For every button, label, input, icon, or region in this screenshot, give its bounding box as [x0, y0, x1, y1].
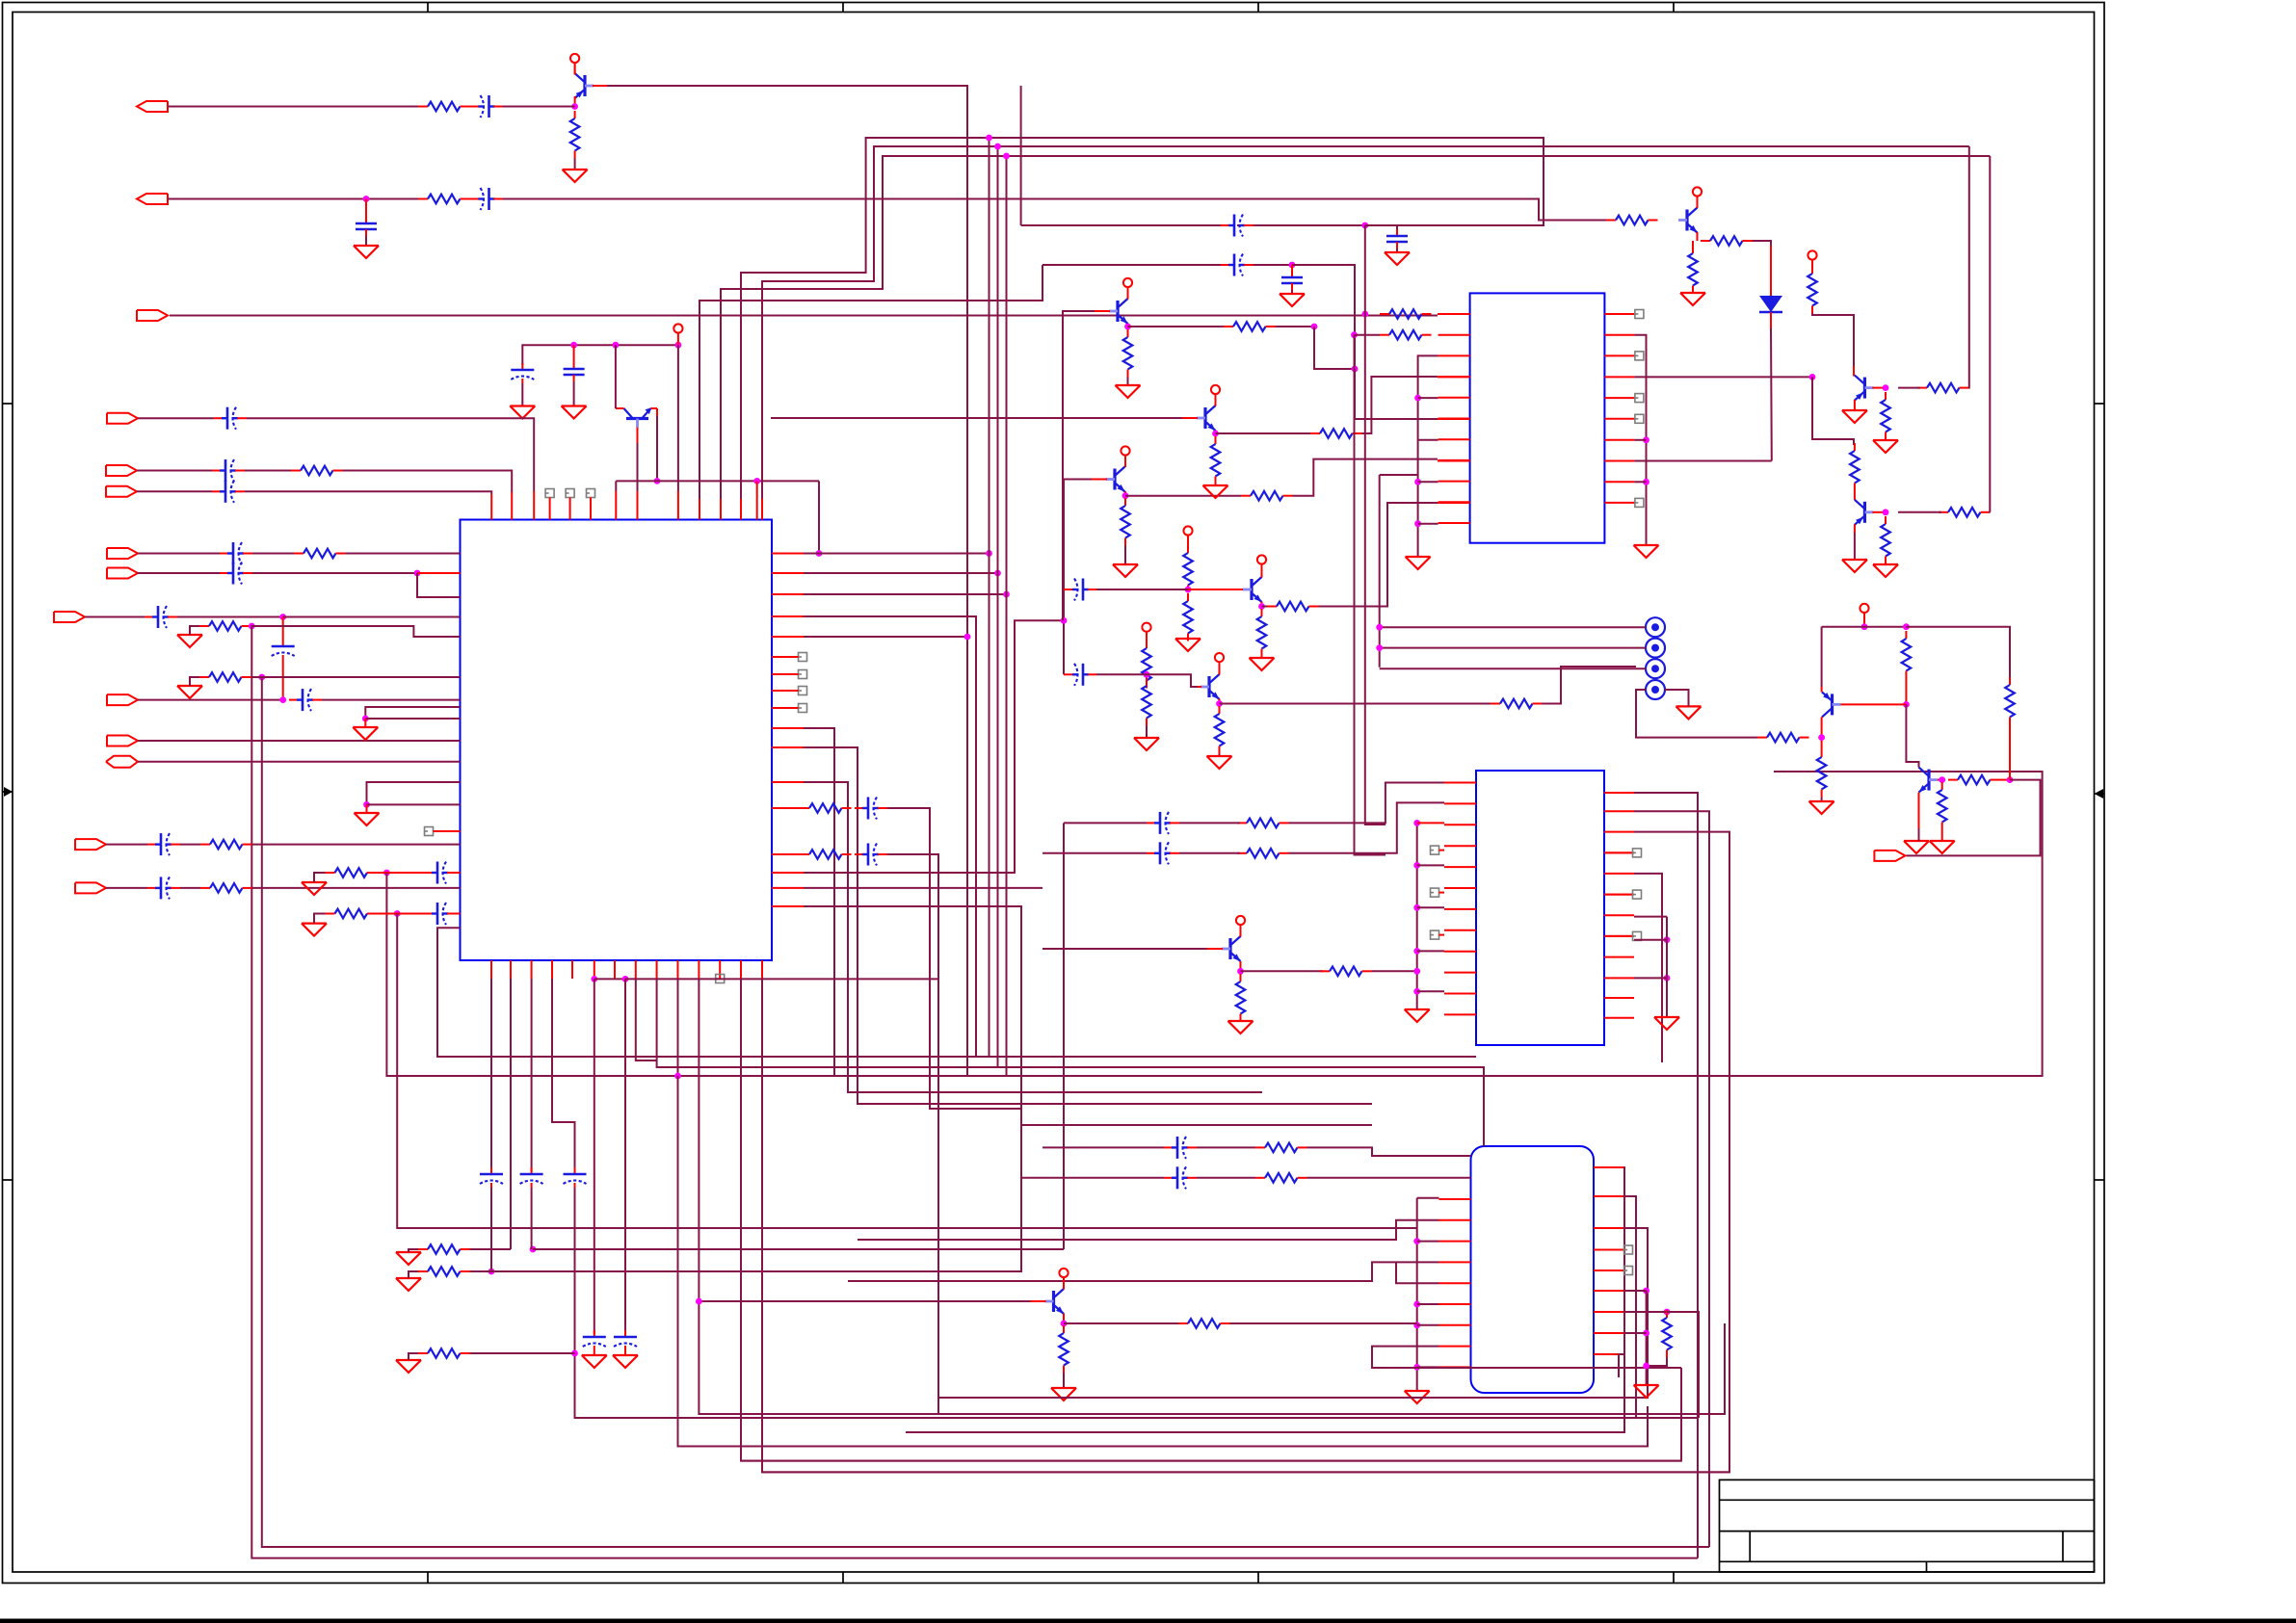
pin stub: [1439, 1241, 1471, 1243]
wire Q2 collector jog: [616, 407, 624, 409]
pin stub: [590, 498, 592, 520]
capacitor C7: [212, 459, 245, 482]
wire Qa emitter row: [1125, 495, 1241, 497]
capacitor C3: [470, 188, 503, 210]
wire: [1313, 327, 1315, 369]
wire: [2000, 779, 2011, 781]
wire: [1418, 355, 1438, 557]
wire: [1289, 783, 1445, 824]
wire row2 to right: [503, 199, 1607, 221]
transistor Q6: [1109, 299, 1128, 324]
border zone tick left: [3, 1179, 13, 1181]
ground GND36: [1405, 1009, 1430, 1022]
wire Qa base stub: [1092, 479, 1107, 481]
wire: [1906, 780, 2040, 856]
junction J21: [591, 976, 597, 982]
wire: [1634, 335, 1646, 545]
wire: [804, 572, 998, 574]
junction J61: [1413, 820, 1420, 826]
power pin PWR8: [1123, 278, 1132, 300]
resistor R48: [1237, 819, 1289, 828]
wire Qb emitter row: [1262, 606, 1268, 608]
wire: [1289, 802, 1445, 852]
pin stub: [1604, 894, 1634, 896]
wire: [1179, 822, 1240, 824]
wire T2 base: [1872, 387, 1886, 389]
transistor Q14: [1045, 1289, 1065, 1314]
junction J14: [362, 716, 369, 722]
wire: [247, 418, 534, 491]
wire: [251, 676, 461, 678]
wire: [938, 1228, 1648, 1414]
border zone tick top: [842, 3, 844, 13]
wire: [906, 1167, 1624, 1432]
wire base: [1063, 311, 1095, 620]
capacitor C34: [1164, 1166, 1197, 1189]
resistor R22: [1267, 602, 1319, 612]
capacitor C29: [1221, 254, 1254, 276]
wire: [1634, 460, 1771, 462]
wire: [1372, 970, 1417, 972]
pin stub: [1604, 956, 1634, 958]
resistor R47: [2005, 677, 2015, 725]
junction J47: [1414, 520, 1421, 527]
junction J77: [1664, 1309, 1671, 1316]
junction J12: [258, 674, 265, 681]
capacitor C18 (pol): [480, 1167, 503, 1188]
power pin PWR11: [1808, 250, 1816, 272]
pin stub: [1438, 376, 1470, 378]
no-connect flag NC21: [1624, 1245, 1633, 1254]
wire drop x401: [386, 772, 2042, 1076]
junction J34: [1258, 603, 1265, 610]
port P9: [54, 612, 85, 622]
pin stub: [571, 960, 573, 979]
wire: [409, 1271, 418, 1278]
pin stub: [1594, 1270, 1623, 1271]
wire T2 emitter: [1854, 400, 1856, 410]
pin stub: [1439, 892, 1445, 894]
resistor R20: [1183, 593, 1193, 641]
power pin PWR7: [1215, 653, 1224, 674]
ground GND10: [302, 924, 327, 936]
wire: [573, 381, 575, 406]
pin stub: [772, 690, 799, 692]
wire: [367, 803, 461, 805]
ground GND6: [177, 686, 202, 698]
wire: [1293, 459, 1438, 496]
wire: [1417, 1197, 1439, 1199]
wire emitter row: [1216, 432, 1311, 434]
pin stub: [1444, 782, 1476, 784]
wire: [657, 979, 1484, 1067]
pin stub: [1594, 1249, 1623, 1251]
wire: [138, 572, 220, 574]
ground GND29: [1873, 440, 1898, 453]
wire Q2 base: [637, 443, 639, 491]
junction J65: [1413, 988, 1420, 995]
transistor Q13: [1222, 936, 1241, 961]
pin stub: [772, 853, 800, 855]
resistor R49: [1237, 849, 1289, 858]
wire bus y1108: [998, 1067, 1485, 1146]
transistor Q10 (PNP): [1855, 500, 1874, 525]
wire: [1319, 503, 1438, 607]
pin stub: [1438, 418, 1470, 420]
capacitor C30: [1281, 271, 1303, 290]
test point TP3: [1646, 659, 1665, 678]
wire Q1 emitter to node: [574, 96, 576, 107]
pin stub: [510, 960, 512, 979]
wire: [503, 106, 575, 108]
resistor R21: [1257, 609, 1267, 657]
capacitor C20 (pol): [564, 1167, 587, 1188]
pin stub: [772, 572, 804, 574]
pin stub: [677, 491, 679, 520]
capacitor C5: [564, 362, 585, 381]
no-connect flag NC10: [1635, 310, 1644, 319]
wire base stub: [1207, 948, 1223, 950]
wire: [1770, 328, 1773, 461]
wire: [1753, 241, 1772, 246]
wire: [252, 553, 294, 555]
port P7: [107, 548, 138, 559]
resistor R33: [1606, 216, 1658, 225]
junction J68: [1664, 936, 1671, 943]
pin stub: [594, 960, 595, 979]
wire: [409, 1249, 418, 1252]
wire: [1634, 939, 1667, 941]
wire: [510, 979, 512, 1249]
wire: [1863, 613, 1865, 627]
pin stub: [1604, 977, 1634, 979]
pin stub: [1444, 951, 1476, 953]
no-connect flag NC22: [1624, 1267, 1633, 1275]
wire: [367, 782, 461, 804]
pin stub: [614, 960, 616, 979]
wire: [1219, 699, 1221, 707]
junction J2: [363, 196, 370, 202]
resistor R12: [418, 1244, 470, 1254]
junction J62: [1413, 862, 1420, 869]
resistor R28: [1224, 322, 1276, 331]
wire: [1941, 830, 1943, 842]
wire: [1261, 602, 1263, 610]
power pin PWR3: [1121, 446, 1129, 467]
junction J79: [1643, 1330, 1649, 1337]
wire: [1372, 1347, 1681, 1368]
wire: [531, 1188, 533, 1249]
pin stub: [1594, 1290, 1623, 1292]
resistor R19: [1183, 545, 1193, 593]
wire: [1063, 1277, 1065, 1290]
power pin PWR4: [1183, 526, 1192, 547]
ground GND18: [1250, 658, 1275, 670]
resistor R3: [418, 195, 470, 204]
pin stub: [1604, 397, 1634, 399]
resistor R18: [1241, 491, 1293, 501]
pin stub: [1439, 934, 1445, 936]
junction J44: [1351, 331, 1358, 338]
wire: [1096, 589, 1188, 590]
pin stub: [1594, 1311, 1623, 1313]
junction J52: [1883, 509, 1889, 515]
junction J23: [674, 1073, 681, 1080]
port P8: [107, 568, 138, 579]
resistor R41: [1881, 516, 1890, 564]
wire: [322, 699, 461, 701]
junction J32: [1061, 617, 1068, 624]
pin stub: [1604, 481, 1634, 483]
pin stub: [1604, 935, 1634, 937]
transistor Q3: [1106, 467, 1125, 492]
pin stub: [1604, 792, 1634, 794]
wire: [1898, 511, 1941, 513]
no-connect flag NC1: [545, 489, 554, 498]
wire bus y1097: [990, 1056, 1477, 1058]
resistor R40: [1939, 508, 1991, 517]
IC U2: [1470, 293, 1605, 542]
border zone tick bottom: [1673, 1572, 1675, 1584]
resistor R29: [1211, 436, 1221, 484]
wire emitter row: [1241, 970, 1324, 972]
pin stub: [1438, 522, 1470, 524]
pin stub: [1438, 460, 1470, 462]
resistor R53: [1255, 1173, 1307, 1183]
port P10: [107, 694, 138, 705]
resistor R46: [1948, 775, 2000, 785]
power pin PWR12: [1860, 604, 1868, 625]
no-connect flag NC6: [799, 653, 807, 662]
no-connect flag NC19: [1633, 890, 1642, 899]
junction J48: [1643, 436, 1649, 443]
pin stub: [1439, 1303, 1471, 1305]
wire: [1096, 673, 1147, 675]
wire: [1307, 1147, 1471, 1156]
junction J57: [1903, 701, 1910, 708]
resistor R31: [1380, 309, 1432, 319]
wire: [282, 660, 284, 700]
wire: [1634, 811, 1709, 1547]
title block: [1720, 1479, 2095, 1572]
junction J56: [1903, 623, 1910, 630]
pin stub: [1438, 313, 1470, 315]
pin stub: [1444, 929, 1476, 931]
pin stub: [699, 499, 700, 520]
pin stub: [1438, 459, 1470, 461]
resistor R7: [199, 672, 251, 682]
pin stub: [1604, 914, 1634, 916]
junction J76: [1643, 1288, 1649, 1295]
wire: [1365, 225, 1397, 232]
test point TP1: [1646, 617, 1665, 637]
junction J54: [1376, 644, 1383, 651]
wire: [1634, 376, 1812, 378]
power pin PWR9: [1211, 385, 1220, 406]
resistor R6: [199, 621, 251, 631]
wire base stub: [1095, 310, 1110, 312]
pin stub: [511, 492, 513, 520]
capacitor C19 (pol): [520, 1167, 543, 1188]
junction J72: [1413, 1322, 1420, 1328]
wire big loop A: [251, 626, 1698, 1558]
power pin PWR2: [673, 324, 682, 345]
ground GND26: [1634, 545, 1659, 558]
pin stub: [549, 498, 551, 520]
wire: [1146, 674, 1148, 688]
pin stub: [531, 960, 533, 979]
no-connect flag NC4: [425, 827, 434, 836]
wire: [138, 740, 461, 742]
wire: [804, 593, 1007, 595]
pin stub: [772, 673, 799, 675]
wire: [138, 417, 214, 419]
no-connect flag NC5: [716, 975, 725, 983]
wire: [1197, 1177, 1255, 1179]
wire: [346, 553, 461, 555]
wire: [1146, 726, 1148, 739]
wire: [1042, 852, 1147, 854]
wire: [1854, 491, 1856, 501]
border zone tick top: [427, 3, 429, 13]
wire base long: [771, 417, 1182, 419]
junction J20: [571, 1350, 578, 1357]
wire: [531, 979, 533, 1171]
border zone tick bottom: [427, 1572, 429, 1584]
ground GND20: [1207, 756, 1232, 769]
resistor R50: [1236, 974, 1246, 1022]
wire: [1147, 674, 1198, 687]
pin stub: [772, 553, 804, 555]
pin stub: [1604, 354, 1634, 356]
wire: [1020, 86, 1022, 225]
wire: [1417, 1303, 1439, 1305]
wire: [1291, 265, 1293, 271]
wire: [887, 808, 1021, 1109]
capacitor C15: [147, 877, 180, 899]
pin stub: [761, 499, 763, 520]
junction J17: [394, 910, 401, 917]
no-connect flag NC16: [1431, 888, 1439, 897]
ground GND16: [1113, 564, 1138, 577]
wire net499 tail: [818, 481, 820, 553]
wire: [1215, 484, 1217, 486]
resistor R36: [1808, 266, 1817, 314]
no-connect flag NC15: [1431, 846, 1439, 854]
wire Q1 base stub: [593, 85, 607, 87]
wire: [1124, 491, 1126, 498]
wire: [106, 844, 147, 846]
wire vertical A: [1365, 225, 1386, 825]
pin stub: [1439, 1261, 1471, 1263]
wire: [1418, 523, 1438, 525]
ground GND5: [177, 635, 202, 647]
wire: [1042, 1146, 1164, 1148]
wire: [721, 156, 1990, 499]
junction J55: [1861, 623, 1868, 630]
wire: [1124, 546, 1126, 565]
wire: [252, 887, 461, 889]
resistor R2: [418, 102, 470, 112]
pin stub: [1604, 502, 1634, 504]
wire: [1697, 232, 1699, 241]
wire Q1 base net: [607, 86, 967, 1076]
wire: [377, 872, 428, 874]
pin stub: [772, 615, 804, 617]
capacitor C22 (pol): [614, 1330, 637, 1350]
port P14: [75, 882, 106, 893]
wire: [1623, 1290, 1647, 1292]
ground GND24: [1203, 485, 1228, 498]
no-connect flag NC8: [799, 687, 807, 695]
junction J39: [1352, 366, 1359, 373]
pin stub: [1444, 887, 1476, 889]
wire: [1770, 312, 1772, 328]
pin stub: [1604, 334, 1634, 336]
junction J60: [2007, 776, 2014, 783]
wire Qc base stub: [1198, 686, 1201, 688]
no-connect flag NC7: [799, 670, 807, 679]
ground GND11: [582, 1355, 607, 1368]
test point TP2: [1646, 639, 1665, 658]
wire: [1127, 324, 1129, 330]
pin stub: [1439, 1198, 1471, 1200]
pin stub: [1438, 502, 1470, 504]
wire: [804, 620, 1064, 873]
resistor R38: [1881, 392, 1890, 440]
pin stub: [772, 887, 804, 889]
wire: [1146, 631, 1148, 642]
resistor R8: [200, 840, 252, 850]
transistor Q5: [1201, 674, 1220, 699]
ground GND39: [1405, 1391, 1430, 1403]
pin stub: [635, 960, 637, 979]
wire vertical B: [1355, 335, 1386, 855]
wire: [1634, 481, 1646, 483]
capacitor C16: [424, 862, 457, 884]
wire: [365, 199, 367, 221]
ground GND7: [353, 727, 378, 740]
capacitor C33: [1164, 1137, 1197, 1159]
wire: [521, 383, 523, 406]
wire: [1811, 259, 1813, 270]
no-connect flag NC9: [799, 704, 807, 713]
wire: [190, 626, 199, 635]
ground GND40: [1051, 1388, 1076, 1400]
ground GND32: [1676, 706, 1702, 719]
pin stub: [772, 636, 804, 638]
power pin PWR14: [1059, 1269, 1068, 1290]
wire: [137, 490, 212, 492]
wire: [1619, 1354, 1623, 1377]
pin stub: [434, 830, 461, 832]
transistor Q4: [1243, 577, 1262, 602]
ground GND27: [1680, 293, 1705, 305]
wire: [1063, 823, 1065, 1249]
resistor R23: [1142, 641, 1151, 689]
wire: [1417, 864, 1444, 866]
pin stub: [677, 960, 679, 979]
test point TP4: [1646, 680, 1665, 699]
wire: [177, 616, 283, 618]
pin stub: [1604, 873, 1634, 875]
capacitor C31: [1147, 812, 1179, 834]
pin stub: [490, 960, 492, 979]
port P3: [137, 310, 168, 321]
no-connect flag NC17: [1431, 930, 1439, 939]
port P15: [1874, 851, 1905, 861]
border zone tick right: [2095, 403, 2105, 405]
